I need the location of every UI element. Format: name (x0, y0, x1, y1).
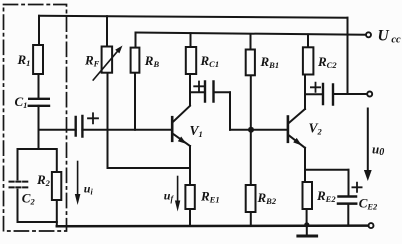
arrow uo (364, 109, 372, 182)
arrow ui (75, 162, 81, 206)
capacitor C2 (dashed plates) (10, 182, 29, 188)
wire RB2 top lead (250, 130, 252, 185)
resistor R2 (52, 172, 61, 200)
wire V2 base (230, 129, 287, 131)
wire Rc1 top lead (190, 33, 192, 47)
transistor V1 (172, 106, 190, 146)
resistor RE1 (185, 185, 194, 209)
resistor RB2 (246, 185, 256, 212)
wire RF top lead (106, 16, 108, 46)
wire Rc1 bottom lead (189, 74, 191, 106)
svg-text:C2: C2 (22, 190, 36, 206)
wire emitter to CE2 (305, 169, 349, 171)
wire RE2 bottom lead (306, 209, 308, 225)
svg-text:ui: ui (84, 182, 94, 197)
wire RB2 bottom lead (250, 212, 252, 225)
wire R1 to C1 (38, 74, 40, 99)
wire RB1 bottom lead (250, 75, 252, 130)
wire C1 to inner box (38, 106, 40, 149)
wire RB bottom lead (134, 73, 136, 130)
output capacitor (323, 84, 333, 105)
svg-text:RB: RB (144, 53, 160, 69)
coupling capacitor input (76, 116, 83, 137)
wire bottom ground rail (57, 224, 369, 227)
wire interstage cap to corner (214, 91, 231, 93)
resistor RB (131, 48, 140, 73)
svg-text:RF: RF (84, 52, 100, 68)
svg-text:uf: uf (164, 189, 175, 204)
plus sign input cap (88, 113, 98, 123)
svg-text:R2: R2 (36, 172, 51, 188)
wire Rc2 top lead (307, 34, 309, 47)
wire output cap to terminal (333, 93, 367, 95)
svg-text:RC2: RC2 (317, 54, 337, 70)
wire RB top lead (135, 33, 137, 48)
wire V1 emitter to RE1 (189, 146, 191, 185)
svg-text:C1: C1 (15, 94, 28, 110)
wire R1 top lead (38, 16, 40, 45)
wire feedback to emitter (108, 167, 191, 169)
resistor R1 (33, 45, 43, 74)
ground symbol (298, 235, 317, 238)
wire feedback vertical (347, 18, 349, 94)
svg-text:RC1: RC1 (200, 53, 220, 69)
svg-text:u0: u0 (372, 141, 384, 158)
resistor RC1 (186, 47, 196, 74)
wire top feedback rail (39, 16, 348, 18)
svg-text:V1: V1 (190, 123, 203, 139)
wire coupling cap to V1 base (82, 129, 171, 131)
wire Rc2 bottom lead / V2 collector (304, 75, 306, 110)
wire RE1 bottom lead (189, 209, 191, 224)
inner sensor box (18, 149, 57, 222)
svg-text:RE1: RE1 (200, 189, 220, 205)
wire RB1 top lead (250, 34, 252, 49)
interstage capacitor (205, 82, 214, 102)
wire collector to cap C2 interstage (190, 91, 205, 93)
wire corner down to base rail (229, 92, 231, 130)
junction dot RE2 ground (304, 222, 309, 227)
terminal output top (367, 92, 372, 97)
svg-text:CE2: CE2 (359, 196, 378, 212)
wire R2 bottom lead (56, 222, 58, 226)
wire to output cap (305, 93, 323, 95)
resistor RC2 (303, 47, 314, 74)
svg-text:V2: V2 (309, 121, 323, 137)
transistor V2 (288, 109, 305, 148)
wire Ucc rail (136, 33, 366, 35)
wire V2 emitter down (304, 148, 306, 182)
svg-text:R1: R1 (17, 52, 31, 68)
plus sign output cap (311, 83, 320, 92)
resistor RB1 (246, 50, 255, 76)
svg-text:RE2: RE2 (316, 188, 336, 204)
terminal output bottom (369, 223, 374, 228)
svg-text:RB1: RB1 (260, 54, 280, 70)
wire input node to coupling cap (39, 129, 76, 131)
arrow uf (175, 177, 180, 212)
svg-text:RB2: RB2 (257, 190, 277, 206)
plus sign CE2 (352, 183, 361, 192)
svg-text:U cc: U cc (378, 28, 401, 46)
wire RF bottom feedback drop (107, 73, 109, 168)
capacitor CE2 (338, 197, 356, 204)
source box (dash-dot chain border) (4, 5, 67, 232)
junction dot V2 base divider (248, 127, 254, 133)
terminal Ucc (366, 32, 371, 37)
capacitor C1 (29, 99, 49, 106)
resistor RE2 (303, 182, 313, 209)
resistor RF (adjustable) (102, 47, 113, 73)
wire CE2 bottom stem (347, 204, 349, 226)
plus sign interstage cap (194, 82, 204, 92)
wire ground stem (306, 225, 308, 235)
wire CE2 top stem (348, 170, 350, 197)
